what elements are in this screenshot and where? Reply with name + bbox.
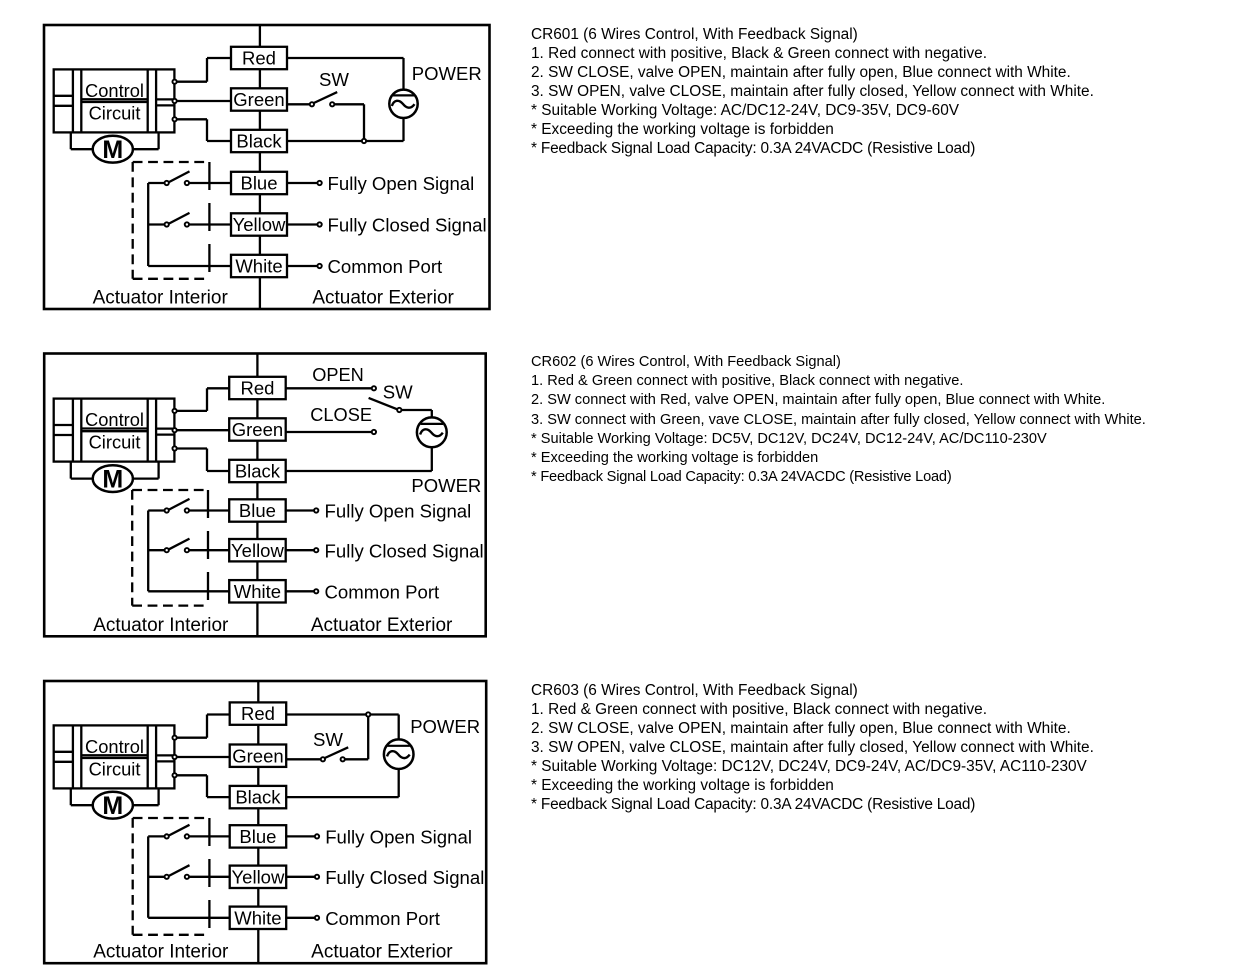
svg-text:Black: Black bbox=[236, 131, 282, 152]
wire: Black to POWER (negative) bbox=[286, 768, 399, 797]
svg-text:CLOSE: CLOSE bbox=[310, 405, 372, 425]
svg-text:Common Port: Common Port bbox=[328, 256, 444, 277]
feedback switch enclosure (dashed) bbox=[132, 490, 208, 606]
svg-text:Blue: Blue bbox=[240, 173, 277, 194]
notes text block bbox=[531, 25, 1094, 159]
notes text block bbox=[531, 353, 1146, 487]
wire: SW to Black bus bbox=[335, 104, 365, 141]
wire label box Red bbox=[229, 377, 286, 399]
AC/DC power source PS2 bbox=[417, 417, 447, 447]
wire: feedback common bus bbox=[147, 183, 149, 266]
svg-text:Fully Closed Signal: Fully Closed Signal bbox=[325, 867, 484, 888]
actuator control circuit box U1 bbox=[54, 399, 175, 462]
svg-text:Actuator Interior: Actuator Interior bbox=[93, 288, 229, 309]
terminal node 3 bbox=[172, 773, 176, 777]
svg-text:Actuator Exterior: Actuator Exterior bbox=[312, 288, 454, 309]
node: fully-open signal terminal bbox=[315, 834, 319, 838]
svg-text:Circuit: Circuit bbox=[89, 432, 141, 453]
wire: terminal 1 to Red box bbox=[175, 388, 231, 411]
svg-text:Fully Open Signal: Fully Open Signal bbox=[328, 173, 475, 194]
wire: feedback common bus bbox=[147, 836, 149, 917]
svg-text:Red: Red bbox=[240, 378, 274, 399]
svg-text:Green: Green bbox=[232, 745, 283, 766]
svg-text:POWER: POWER bbox=[412, 63, 482, 84]
svg-text:Fully Closed Signal: Fully Closed Signal bbox=[328, 215, 487, 236]
svg-text:Actuator Interior: Actuator Interior bbox=[93, 615, 229, 636]
node: common signal terminal bbox=[315, 916, 319, 920]
actuator control circuit box U1 bbox=[54, 725, 175, 788]
wire: fully-closed signal lead bbox=[286, 223, 318, 225]
wire label box White bbox=[231, 255, 287, 277]
CR602 diagram outer frame (Actuator boundary) bbox=[44, 354, 486, 637]
wire: terminal 1 to Red box bbox=[175, 58, 232, 82]
svg-text:OPEN: OPEN bbox=[312, 365, 364, 385]
wire: SW pole to POWER bbox=[402, 410, 432, 418]
wire label box Black bbox=[229, 460, 286, 482]
svg-text:Black: Black bbox=[235, 787, 281, 808]
svg-text:SW: SW bbox=[383, 381, 413, 402]
wire: Red to POWER (positive) bbox=[286, 715, 399, 741]
wire label box Blue bbox=[231, 172, 287, 194]
wire: White common wire bbox=[148, 265, 232, 267]
wire: terminal 1 to Red box bbox=[175, 715, 231, 738]
svg-text:Red: Red bbox=[241, 703, 275, 724]
svg-text:Fully Open Signal: Fully Open Signal bbox=[325, 501, 472, 522]
node: fully-open signal terminal bbox=[314, 508, 318, 512]
wire: Red to OPEN contact bbox=[285, 387, 372, 389]
terminal node 3 bbox=[172, 446, 176, 450]
wire: motor supply bracket bbox=[71, 132, 159, 149]
wire label box Blue bbox=[230, 825, 287, 847]
switch SW bbox=[310, 92, 337, 106]
svg-text:Control: Control bbox=[85, 409, 144, 430]
terminal node 1 bbox=[172, 736, 176, 740]
terminal node 1 bbox=[172, 80, 176, 84]
wire: central bus line dividing interior/exterior bbox=[259, 25, 261, 309]
wire: Black to POWER (negative) bbox=[286, 117, 404, 141]
wire: terminal 2 to Green box bbox=[175, 429, 231, 431]
feedback switch enclosure (dashed) bbox=[133, 162, 210, 279]
svg-text:Yellow: Yellow bbox=[233, 214, 286, 235]
svg-text:White: White bbox=[234, 581, 281, 602]
wire: central bus line dividing interior/exterior bbox=[257, 681, 259, 963]
wire: Red to POWER (positive) bbox=[286, 58, 404, 90]
svg-text:M: M bbox=[102, 136, 123, 164]
wire: fully-closed signal lead bbox=[285, 549, 315, 551]
wire: terminal 2 to Green box bbox=[175, 100, 232, 102]
svg-text:Circuit: Circuit bbox=[89, 102, 141, 123]
terminal node 3 bbox=[172, 117, 176, 121]
svg-text:Red: Red bbox=[242, 48, 276, 69]
wire label box Blue bbox=[229, 499, 286, 521]
svg-text:M: M bbox=[102, 466, 123, 494]
node: CLOSE contact bbox=[372, 430, 376, 434]
wire: Green to SW bbox=[286, 103, 310, 105]
wire: White common wire bbox=[148, 590, 230, 592]
wire: Green to SW bbox=[286, 758, 321, 760]
switch SW bbox=[321, 747, 348, 761]
wire: fully-open signal lead bbox=[285, 509, 315, 511]
svg-text:Blue: Blue bbox=[239, 500, 276, 521]
CR603 diagram outer frame (Actuator boundary) bbox=[44, 681, 486, 963]
feedback switch S1 (fully-open) bbox=[148, 499, 230, 513]
wire: feedback common bus bbox=[147, 511, 149, 592]
wire: motor supply bracket bbox=[71, 788, 159, 805]
wire: terminal 3 to Black box bbox=[175, 119, 232, 141]
wire: common signal lead bbox=[285, 590, 315, 592]
wire label box Yellow bbox=[229, 539, 286, 561]
switch SW blade bbox=[369, 398, 397, 409]
wire: fully-closed signal lead bbox=[285, 876, 315, 878]
svg-text:Green: Green bbox=[233, 89, 284, 110]
svg-text:Actuator Exterior: Actuator Exterior bbox=[311, 615, 453, 636]
svg-text:SW: SW bbox=[319, 69, 349, 90]
node: fully-closed signal terminal bbox=[317, 222, 321, 226]
wire: White common wire bbox=[148, 917, 231, 919]
motor M bbox=[93, 136, 133, 164]
svg-text:Black: Black bbox=[235, 461, 281, 482]
motor M bbox=[93, 465, 133, 493]
node: OPEN contact bbox=[372, 386, 376, 390]
svg-text:Yellow: Yellow bbox=[231, 540, 284, 561]
terminal node 2 bbox=[172, 755, 176, 759]
svg-text:Control: Control bbox=[85, 736, 144, 757]
svg-text:Common Port: Common Port bbox=[325, 582, 441, 603]
actuator control circuit box U1 bbox=[54, 69, 175, 132]
feedback switch S1 (fully-open) bbox=[148, 171, 232, 185]
svg-text:White: White bbox=[235, 256, 282, 277]
wire label box Green bbox=[230, 745, 287, 767]
feedback switch S2 (fully-closed) bbox=[148, 213, 232, 227]
wire: common signal lead bbox=[286, 265, 318, 267]
wire label box Green bbox=[231, 88, 287, 110]
feedback switch S2 (fully-closed) bbox=[148, 539, 230, 553]
terminal node 2 bbox=[172, 428, 176, 432]
node: fully-closed signal terminal bbox=[315, 875, 319, 879]
wire: terminal 3 to Black box bbox=[175, 449, 231, 472]
feedback switch S2 (fully-closed) bbox=[148, 865, 231, 879]
terminal node 2 bbox=[172, 99, 176, 103]
wire: central bus line dividing interior/exterior bbox=[256, 354, 258, 637]
svg-text:Control: Control bbox=[85, 80, 144, 101]
wire: fully-open signal lead bbox=[285, 835, 315, 837]
wire: common signal lead bbox=[285, 917, 315, 919]
wire: Green to CLOSE contact bbox=[285, 431, 372, 433]
svg-text:Actuator Exterior: Actuator Exterior bbox=[311, 942, 453, 963]
feedback switch S1 (fully-open) bbox=[148, 825, 231, 839]
wire label box Red bbox=[230, 702, 287, 724]
svg-text:POWER: POWER bbox=[410, 716, 480, 737]
wire label box White bbox=[229, 580, 286, 602]
svg-text:Fully Closed Signal: Fully Closed Signal bbox=[325, 540, 484, 561]
svg-text:POWER: POWER bbox=[411, 475, 481, 496]
wire: terminal 2 to Green box bbox=[175, 756, 231, 758]
svg-text:Yellow: Yellow bbox=[232, 866, 285, 887]
svg-text:M: M bbox=[102, 792, 123, 820]
wire: SW to Red bus bbox=[345, 715, 368, 760]
junction node on Red wire bbox=[366, 712, 370, 716]
notes text block bbox=[531, 681, 1094, 815]
svg-text:Fully Open Signal: Fully Open Signal bbox=[325, 827, 472, 848]
wire: motor supply bracket bbox=[71, 462, 159, 479]
node: fully-open signal terminal bbox=[317, 181, 321, 185]
CR601 diagram outer frame (Actuator boundary) bbox=[44, 25, 490, 309]
wire label box Black bbox=[230, 786, 287, 808]
AC/DC power source PS1 bbox=[389, 90, 417, 118]
svg-text:Common Port: Common Port bbox=[325, 908, 441, 929]
junction node on Black wire bbox=[362, 139, 366, 143]
wire: Black to POWER (negative) bbox=[285, 446, 432, 471]
wire label box Green bbox=[229, 418, 286, 440]
wire label box Black bbox=[231, 130, 287, 152]
svg-text:Circuit: Circuit bbox=[89, 758, 141, 779]
wire: fully-open signal lead bbox=[286, 182, 318, 184]
node: SW pole bbox=[397, 408, 401, 412]
svg-text:Blue: Blue bbox=[239, 826, 276, 847]
svg-text:White: White bbox=[234, 907, 281, 928]
node: common signal terminal bbox=[317, 264, 321, 268]
wire label box White bbox=[230, 907, 287, 929]
wire label box Yellow bbox=[230, 866, 287, 888]
motor M bbox=[93, 792, 133, 820]
feedback switch enclosure (dashed) bbox=[133, 818, 210, 935]
wire label box Red bbox=[231, 47, 287, 69]
svg-text:Green: Green bbox=[232, 419, 283, 440]
wire: terminal 3 to Black box bbox=[175, 775, 231, 797]
terminal node 1 bbox=[172, 409, 176, 413]
AC/DC power source PS3 bbox=[384, 739, 414, 769]
node: fully-closed signal terminal bbox=[314, 548, 318, 552]
svg-text:Actuator Interior: Actuator Interior bbox=[93, 942, 229, 963]
node: common signal terminal bbox=[314, 589, 318, 593]
svg-text:SW: SW bbox=[313, 729, 343, 750]
wire label box Yellow bbox=[231, 213, 287, 235]
